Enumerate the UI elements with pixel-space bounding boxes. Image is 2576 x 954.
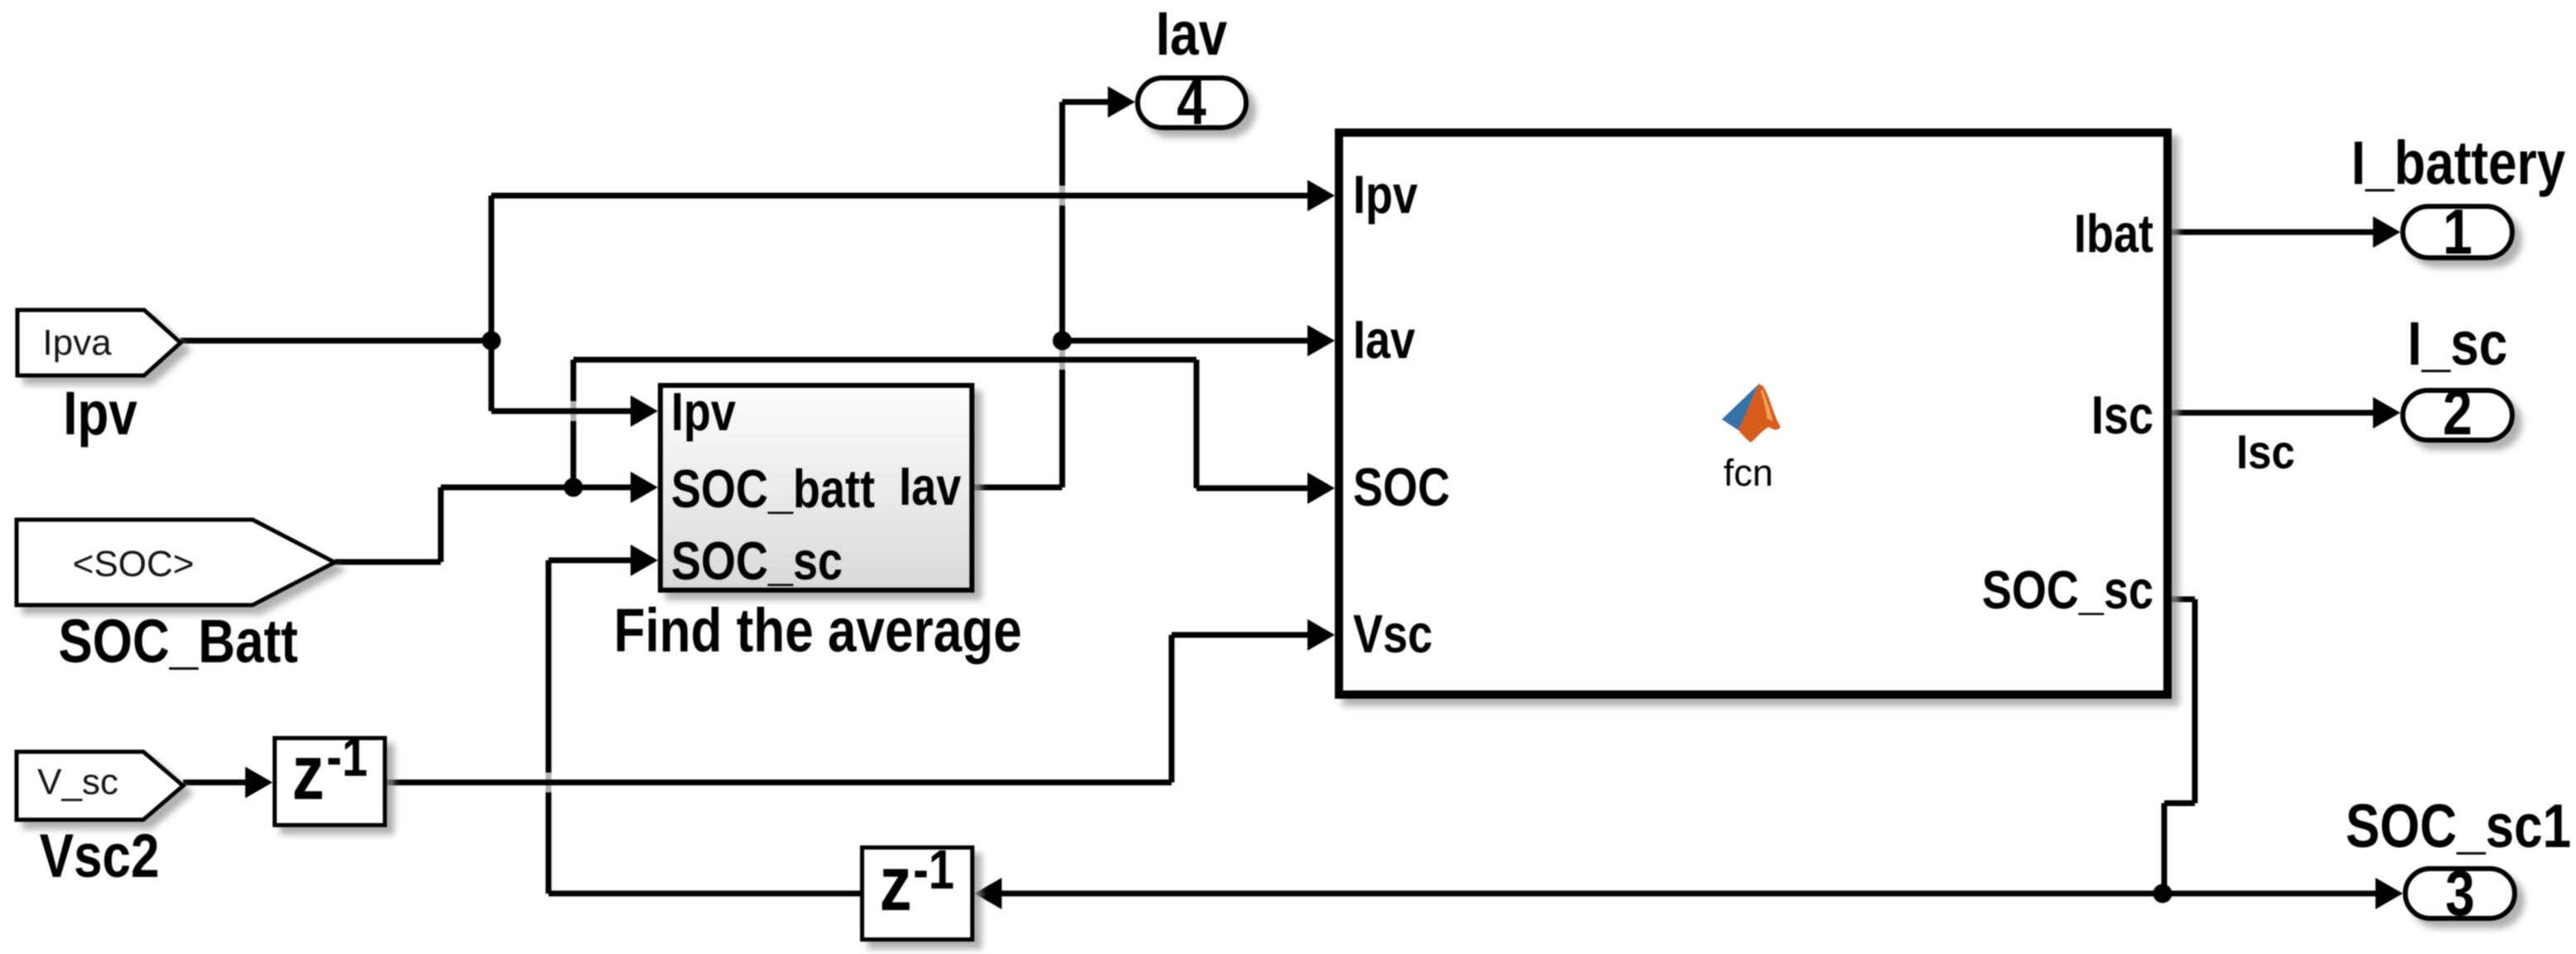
arrowhead into subsystem SOC_sc [631, 545, 658, 576]
arrowhead into unit delay 1 [245, 767, 273, 798]
wire: SOC_sc out of fcn [2172, 597, 2195, 603]
wire: Iav into fcn [1062, 338, 1316, 344]
svg-text:Ipv: Ipv [1353, 164, 1418, 225]
crossing gap on Iav riser upper [1060, 186, 1066, 206]
svg-text:-1: -1 [326, 726, 368, 788]
wire: SOC_sc bottom run [999, 891, 2383, 897]
arrowhead into port 1 [2373, 216, 2400, 248]
svg-text:Iav: Iav [899, 456, 961, 516]
svg-text:Find the average: Find the average [614, 596, 1022, 666]
arrowhead into fcn Iav [1307, 325, 1335, 356]
arrowhead into fcn SOC [1307, 472, 1335, 504]
junction: SOC split [564, 478, 583, 497]
arrowhead into port 3 [2375, 878, 2403, 909]
input tag Ipva [17, 310, 181, 375]
wire: Ipva output [181, 338, 491, 344]
svg-text:Iav: Iav [1353, 309, 1415, 370]
svg-text:z: z [879, 840, 911, 927]
wire: Ipv to subsystem [491, 409, 642, 414]
junction: Ipv split [482, 332, 501, 351]
input tag SOC [17, 520, 335, 605]
junction: Iav split [1053, 332, 1072, 351]
wire: SOC to subsystem [441, 485, 642, 491]
svg-text:I_battery: I_battery [2351, 128, 2565, 198]
svg-text:Isc: Isc [2091, 385, 2153, 445]
crossing gap on SOC riser [571, 401, 577, 421]
arrowhead into fcn Ipv [1307, 180, 1335, 211]
svg-text:I_sc: I_sc [2408, 309, 2508, 379]
arrowhead into unit delay 2 [974, 878, 1002, 909]
svg-text:fcn: fcn [1723, 452, 1773, 494]
svg-text:SOC_batt: SOC_batt [671, 458, 875, 519]
svg-text:1: 1 [2443, 196, 2472, 267]
wire: SOC_sc into subsystem [549, 558, 640, 564]
wire: SOC into fcn [1196, 486, 1316, 492]
unit delay block z2 [863, 848, 973, 940]
svg-text:Ibat: Ibat [2074, 203, 2153, 264]
svg-text:3: 3 [2445, 857, 2475, 928]
arrowhead into port 4 [1108, 86, 1135, 118]
svg-text:SOC_sc: SOC_sc [1982, 559, 2153, 620]
wire: Iav from subsystem [974, 485, 1062, 491]
svg-text:z: z [292, 729, 324, 816]
output port 1 [2403, 206, 2512, 258]
svg-text:Ipv: Ipv [63, 379, 138, 448]
wire: Vsc riser [1169, 635, 1175, 782]
wire: SOC_sc jog [2164, 801, 2195, 806]
svg-text:SOC_sc1: SOC_sc1 [2346, 792, 2571, 861]
wire: Vsc into fcn [1172, 632, 1316, 638]
output port 2 [2403, 390, 2512, 440]
wire: SOC_sc return riser [546, 560, 552, 893]
wire: Ipv branch riser [489, 196, 495, 411]
wire: unit delay 2 output [549, 891, 860, 897]
wire: SOC_sc drop 1 [2192, 599, 2198, 803]
junction: SOC_sc split [2153, 884, 2172, 903]
wire: Isc to port 2 [2172, 410, 2380, 416]
svg-text:Ipva: Ipva [42, 322, 112, 363]
arrowhead into fcn Vsc [1307, 619, 1335, 651]
svg-text:Ipv: Ipv [671, 381, 736, 442]
svg-text:-1: -1 [913, 839, 955, 901]
svg-text:<SOC>: <SOC> [73, 544, 195, 584]
svg-text:SOC_sc: SOC_sc [671, 530, 843, 591]
unit delay block z1 [275, 739, 385, 826]
MATLAB logo orange membrane [1738, 384, 1781, 443]
svg-text:SOC_Batt: SOC_Batt [58, 607, 297, 676]
MATLAB logo highlight [1761, 390, 1773, 422]
wire: Iav riser [1060, 102, 1066, 487]
crossing gap on Iav riser lower [1060, 350, 1066, 370]
wire: SOC riser [571, 360, 577, 487]
arrowhead into subsystem Ipv [631, 395, 658, 427]
wire: SOC step up [438, 487, 444, 562]
subsystem Find the average [660, 385, 972, 590]
MATLAB logo blue face [1722, 384, 1759, 430]
wire: Iav to port 4 [1062, 99, 1114, 105]
wire: SOC drop to fcn [1194, 360, 1200, 488]
svg-text:4: 4 [1177, 66, 1206, 138]
wire: SOC tag output [335, 559, 441, 565]
svg-text:Isc: Isc [2236, 425, 2295, 479]
MATLAB function block fcn [1339, 133, 2168, 695]
wire: SOC top run [573, 357, 1196, 363]
wire: Ibat to port 1 [2172, 230, 2380, 235]
svg-text:2: 2 [2443, 376, 2472, 448]
arrowhead into subsystem SOC_batt [631, 472, 658, 503]
svg-text:SOC: SOC [1353, 457, 1450, 517]
output port 4 [1138, 78, 1246, 128]
wire: SOC_sc drop 2 [2162, 803, 2168, 893]
output port 3 [2405, 869, 2515, 918]
svg-text:V_sc: V_sc [37, 762, 118, 802]
wire: unit delay output run [387, 780, 1172, 786]
input tag V_sc [17, 752, 183, 820]
arrowhead into port 2 [2373, 397, 2400, 429]
wire: V_sc to unit delay [183, 780, 250, 786]
svg-text:Iav: Iav [1156, 0, 1227, 68]
svg-text:Vsc2: Vsc2 [40, 821, 160, 891]
svg-text:Vsc: Vsc [1353, 603, 1433, 664]
crossing gap on SOC_sc return riser [546, 772, 552, 792]
wire: Ipv to fcn [491, 193, 1316, 199]
